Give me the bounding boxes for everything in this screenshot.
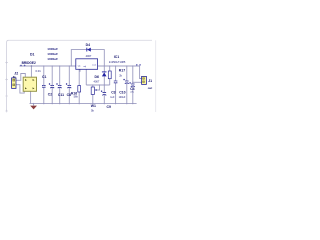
diode D4 [86,48,88,52]
svg-text:D1: D1 [30,52,35,56]
svg-text:adj: adj [83,66,86,68]
capacitor C1 [42,85,46,87]
svg-text:BRIDGE2: BRIDGE2 [22,61,36,65]
capacitor C11 [56,83,61,88]
svg-text:W1: W1 [91,104,96,108]
wire: bridge - output drop [30,91,32,103]
wire: IC1 ADJ pin drop [80,69,86,85]
wire: C1 column [43,66,45,104]
svg-text:4007: 4007 [94,79,100,83]
wire: C10 column [126,66,128,104]
svg-text:R17: R17 [119,68,125,72]
svg-text:out: out [148,86,152,90]
svg-text:100uF: 100uF [119,96,126,99]
frame tick marks [5,61,8,112]
wire: C9 / D6 anode column [103,76,105,103]
wire: D4 bypass branch [71,50,104,66]
net marks left rail end [20,65,26,67]
wire: regulator output rail [98,65,140,67]
resistor R17 [108,71,111,79]
sheet frame left border [7,40,9,111]
svg-text:C10: C10 [119,90,125,94]
wire: W1 bottom lead [92,94,94,103]
bridge rectifier D1 [23,77,36,91]
wire: top + rail [20,65,76,67]
svg-text:1000uF: 1000uF [47,52,58,56]
connector J1 [142,76,147,84]
wire: bottom ground rail [30,103,137,105]
resistor R16 [78,86,81,92]
svg-text:D4: D4 [86,43,90,47]
svg-text:IC1: IC1 [114,55,119,59]
svg-text:C4: C4 [130,87,134,91]
ground [30,106,37,110]
junction bridge riser [31,65,33,67]
connector J2 [12,78,16,89]
svg-text:C3: C3 [111,90,115,94]
wire: R16 column [78,66,80,104]
svg-text:D6: D6 [95,75,99,79]
wire: C11 column [59,66,61,104]
wire: W1 wiper tie [96,85,99,90]
svg-text:0.01: 0.01 [36,69,42,73]
capacitor C4 [129,82,134,87]
svg-text:1000uF: 1000uF [47,57,58,61]
capacitor C8 [66,83,71,88]
wire: J1 pin1 feed [140,66,142,79]
wire: C8 column [68,66,70,104]
svg-text:56k: 56k [74,95,79,99]
svg-text:vout: vout [92,63,97,66]
capacitor C9 [101,91,106,96]
wire: R17 leads [109,66,111,85]
svg-text:lm350/LT1085: lm350/LT1085 [109,60,126,64]
sheet frame top border [9,39,153,41]
potentiometer W1 [91,87,94,94]
wire: J2 pin1 to bridge [16,74,25,81]
IC1 regulator [76,59,98,70]
capacitor C3 [114,81,118,83]
output net marks [136,64,141,66]
svg-text:1uF: 1uF [110,96,115,99]
svg-text:C1: C1 [42,75,46,79]
svg-text:C2: C2 [48,93,52,97]
wire: ground stub [33,104,35,106]
wire: C2 column [51,66,53,104]
wire: C3 column [115,66,117,104]
svg-text:C11: C11 [58,93,64,97]
sheet frame right border [155,40,157,112]
svg-text:4007: 4007 [86,54,92,58]
svg-text:J1: J1 [148,79,152,83]
wire: D6 cathode stub [103,66,105,72]
diode D6 [102,71,107,73]
wire: J2 pin2 to bridge [16,85,24,93]
capacitor C2 [49,83,54,88]
wire: ADJ net horizontal [86,84,109,86]
wire: J1 pin2 ground return [133,81,142,83]
svg-text:1000uF: 1000uF [47,47,58,51]
wire: bridge + output riser [30,66,32,77]
junction dots [33,65,134,104]
capacitor C10 [123,79,128,84]
svg-text:C9: C9 [107,105,111,109]
wire: W1 top lead [92,85,94,87]
wire: C4 column [132,66,134,104]
